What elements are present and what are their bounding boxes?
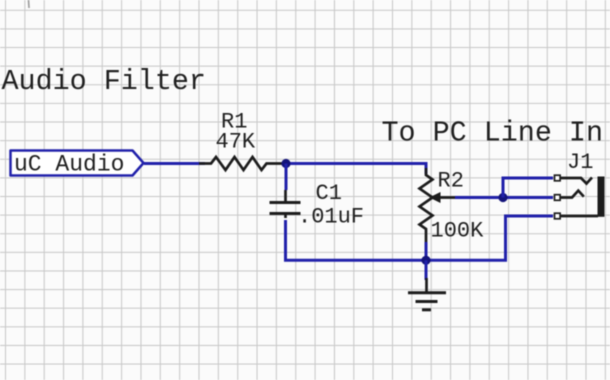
svg-text:To PC Line In: To PC Line In — [382, 117, 603, 150]
svg-text:R2: R2 — [438, 169, 464, 194]
svg-text:uC Audio: uC Audio — [14, 152, 124, 178]
svg-text:J1: J1 — [567, 150, 593, 175]
stray mark top left — [28, 0, 31, 8]
wire branch to jack tip pin — [503, 178, 553, 198]
wire C1 bottom rail to jack sleeve — [286, 216, 554, 260]
wire R2 bottom to rail — [425, 242, 428, 260]
svg-text:C1: C1 — [316, 181, 342, 206]
wire junction to ground — [425, 260, 428, 280]
svg-text:Audio Filter: Audio Filter — [2, 65, 206, 98]
wire wiper to jack middle pin — [455, 196, 553, 199]
svg-text:100K: 100K — [431, 219, 485, 244]
net flag uC Audio — [11, 151, 144, 178]
node junction R1/C1 — [281, 159, 290, 168]
wire R1 junction to R2 top — [286, 164, 426, 175]
capacitor C1 — [270, 190, 301, 218]
resistor R1 — [199, 157, 286, 170]
node junction R2 bottom / ground — [421, 256, 430, 265]
potentiometer R2 — [420, 164, 458, 243]
svg-text:.01uF: .01uF — [298, 205, 364, 230]
wire flag to R1 — [144, 162, 205, 165]
svg-text:47K: 47K — [216, 130, 256, 155]
wire junction down to C1 — [285, 164, 288, 191]
node junction on wiper wire — [498, 193, 507, 202]
ground — [408, 278, 446, 310]
connector J1 — [555, 175, 605, 219]
